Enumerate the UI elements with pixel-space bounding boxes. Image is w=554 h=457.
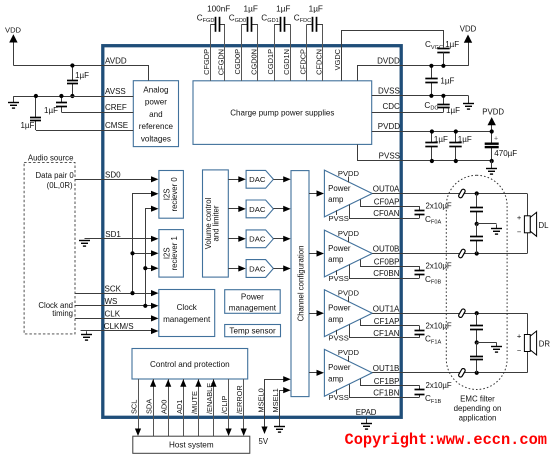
pin CFGDN wire — [224, 24, 226, 81]
pin CF0AP wire + label — [361, 200, 420, 207]
pin /CLIP wire — [228, 379, 230, 430]
svg-text:1µF: 1µF — [244, 4, 258, 13]
svg-text:/ERROR: /ERROR — [235, 385, 244, 414]
ground (MSEL1) — [279, 423, 281, 427]
svg-text:reciever 1: reciever 1 — [170, 236, 179, 270]
svg-text:DAC: DAC — [249, 264, 266, 273]
svg-text:CFGDN: CFGDN — [217, 49, 226, 75]
wire volume control to DAC 4 — [228, 268, 239, 270]
EMC shunt capacitor 2 (DL bottom) — [476, 224, 478, 237]
svg-text:Audio source: Audio source — [28, 154, 74, 163]
pin /ERROR wire — [243, 379, 245, 430]
svg-text:CF0BN: CF0BN — [373, 269, 399, 278]
pin CDC wire + label — [372, 112, 444, 114]
power amp 1 PVDD pin — [348, 177, 350, 183]
svg-text:DL: DL — [539, 221, 550, 230]
svg-text:Analog: Analog — [143, 85, 168, 94]
wire DAC 2 to channel configuration — [273, 208, 284, 210]
pin SD0 wire + label — [75, 179, 152, 181]
power amp 4 PVSS pin — [336, 390, 338, 395]
pin CF1AN wire + label — [350, 325, 420, 338]
svg-text:EMC filter: EMC filter — [460, 394, 495, 403]
node DR filter midpoint — [475, 340, 479, 344]
svg-text:VDD: VDD — [5, 25, 22, 34]
svg-text:power: power — [145, 98, 167, 107]
ferrite bead on OUT1B — [458, 368, 466, 378]
capacitor 1uF AVDD-AVSS — [72, 66, 74, 81]
svg-text:1µF: 1µF — [440, 77, 454, 86]
svg-text:1µF: 1µF — [434, 135, 448, 144]
ground (DVSS) — [468, 95, 470, 103]
svg-text:DAC: DAC — [249, 175, 266, 184]
power amp 2 PVSS pin — [336, 270, 338, 275]
wire channel configuration to power amp 4 — [309, 372, 318, 374]
power amp 3 PVSS pin — [336, 330, 338, 335]
wire volume control to DAC 3 — [228, 238, 239, 240]
power amp 1 PVSS pin — [336, 210, 338, 215]
speaker DR — [527, 313, 529, 334]
wire OUT1A output — [372, 313, 527, 315]
pin VGDC wire to external CVGC — [342, 31, 444, 81]
svg-text:CDC: CDC — [382, 102, 400, 111]
node DL filter midpoint — [475, 222, 479, 226]
pin SD1 wire + label — [85, 238, 153, 240]
svg-text:VDD: VDD — [460, 25, 477, 34]
capacitor 1uF DVDD-DVSS — [431, 66, 433, 79]
svg-text:/ENABLE: /ENABLE — [205, 383, 214, 414]
svg-text:2x10µF: 2x10µF — [426, 381, 452, 390]
EMC shunt capacitor 3 (DR top) — [476, 313, 478, 326]
EMC filter ground (DR) — [477, 342, 497, 344]
svg-text:Temp sensor: Temp sensor — [229, 327, 276, 336]
svg-text:−: − — [517, 227, 522, 236]
pin CLKM/S wire + label — [81, 330, 153, 332]
block: Analog power and reference voltages — [133, 81, 178, 147]
svg-text:AVSS: AVSS — [105, 87, 126, 96]
pin CF1BN wire + label — [350, 385, 420, 398]
svg-text:PVDD: PVDD — [378, 122, 400, 131]
pin CF0BN wire + label — [350, 265, 420, 279]
node OUT0A filter junction — [475, 191, 479, 195]
svg-text:AD1: AD1 — [175, 400, 184, 414]
pin CF1AP wire + label — [361, 320, 420, 326]
svg-text:and: and — [149, 110, 163, 119]
svg-text:5V: 5V — [259, 437, 269, 446]
svg-text:amp: amp — [328, 255, 344, 264]
svg-text:Copyright:www.eccn.com: Copyright:www.eccn.com — [345, 431, 548, 449]
capacitor CF1B 2x10uF — [419, 385, 421, 389]
svg-text:SD1: SD1 — [105, 230, 121, 239]
svg-text:CF1AP: CF1AP — [374, 317, 400, 326]
svg-text:Power: Power — [328, 244, 351, 253]
capacitor CF0B 2x10uF — [419, 266, 421, 270]
svg-text:CF0BP: CF0BP — [374, 258, 400, 267]
power amp 3 PVDD pin — [348, 296, 350, 302]
svg-text:/MUTE: /MUTE — [190, 391, 199, 414]
pin SCK wire + label — [75, 293, 152, 295]
svg-text:PVDD: PVDD — [338, 229, 360, 238]
svg-text:CMSE: CMSE — [105, 121, 128, 130]
svg-text:Power: Power — [241, 292, 264, 301]
svg-text:(0L,0R): (0L,0R) — [47, 181, 73, 190]
capacitor CGD1 1µF — [274, 24, 280, 26]
svg-text:management: management — [229, 303, 277, 312]
op-amp power amp 4 — [324, 349, 372, 396]
svg-text:voltages: voltages — [141, 135, 171, 144]
ferrite bead on OUT0A — [458, 189, 466, 199]
block: Power management — [225, 290, 281, 314]
EMC shunt capacitor 4 (DR bottom) — [476, 343, 478, 357]
capacitor CF0A 2x10uF — [419, 206, 421, 210]
svg-text:CGD1P: CGD1P — [266, 49, 275, 75]
capacitor 1uF PVDD-PVSS (2) — [455, 132, 457, 143]
svg-text:depending on: depending on — [454, 404, 502, 413]
pin CF0AN wire + label — [350, 205, 420, 219]
svg-text:Clock: Clock — [177, 303, 198, 312]
svg-text:SD0: SD0 — [105, 170, 121, 179]
speaker DL — [527, 194, 529, 216]
wire DAC 4 to channel configuration — [273, 268, 284, 270]
svg-text:PVDD: PVDD — [338, 289, 360, 298]
svg-text:OUT1B: OUT1B — [373, 364, 400, 373]
svg-text:+: + — [517, 213, 522, 222]
pin CGD0P wire — [241, 24, 243, 81]
DAC 1 — [246, 170, 273, 188]
EMC shunt capacitor 1 (DL top) — [476, 194, 478, 208]
svg-text:PVSS: PVSS — [329, 274, 349, 283]
svg-text:CREF: CREF — [105, 103, 127, 112]
EMC filter ground (DL) — [477, 223, 497, 225]
wire DAC 3 to channel configuration — [273, 238, 284, 240]
pin CGD1P wire — [274, 24, 276, 81]
svg-text:1µF: 1µF — [458, 135, 472, 144]
IC block outline (main amplifier chip) — [103, 46, 401, 418]
svg-text:1µF: 1µF — [44, 106, 58, 115]
pin PVSS wire + label — [358, 145, 492, 161]
svg-text:CLK: CLK — [105, 310, 121, 319]
pin CGD1N wire — [290, 24, 292, 81]
dashed box: Audio source — [24, 162, 75, 334]
block: Charge pump power supplies — [193, 81, 372, 145]
ferrite bead on OUT1A — [458, 308, 466, 318]
pin CFGDP wire — [210, 24, 212, 81]
node OUT0B filter junction — [475, 251, 479, 255]
svg-text:WS: WS — [105, 297, 118, 306]
capacitor 1uF on CREF — [61, 96, 63, 103]
svg-text:PVSS: PVSS — [379, 151, 400, 160]
svg-text:1µF: 1µF — [276, 4, 290, 13]
block: I2S reciever 0 — [159, 171, 184, 219]
svg-text:Power: Power — [328, 184, 351, 193]
svg-text:1µF: 1µF — [20, 121, 34, 130]
svg-text:Data pair 0: Data pair 0 — [36, 171, 75, 180]
dashed EMC filter boundary — [446, 175, 507, 389]
op-amp power amp 2 — [324, 230, 372, 277]
block: Control and protection — [132, 349, 248, 380]
svg-text:Power: Power — [328, 304, 351, 313]
capacitor CDC 1uF — [443, 96, 445, 105]
svg-text:Host system: Host system — [169, 441, 214, 450]
ground (AVSS left) — [13, 96, 15, 102]
svg-text:DVSS: DVSS — [378, 87, 400, 96]
DAC 3 — [246, 230, 273, 248]
svg-text:+: + — [517, 332, 522, 341]
block: Host system — [133, 436, 250, 453]
svg-text:CFDCN: CFDCN — [314, 49, 323, 75]
capacitor CFGD 100nF — [211, 24, 216, 26]
pin WS wire + label — [75, 305, 152, 307]
capacitor 1uF PVDD-PVSS (1) — [431, 132, 433, 143]
svg-text:Channel configuration: Channel configuration — [296, 246, 305, 322]
svg-text:1µF: 1µF — [75, 71, 89, 80]
svg-text:2x10µF: 2x10µF — [426, 321, 452, 330]
svg-text:PVSS: PVSS — [329, 214, 349, 223]
pin MSEL1 wire — [280, 391, 285, 423]
ferrite bead on OUT0B — [458, 249, 466, 259]
wire channel configuration to power amp 1 — [309, 193, 318, 195]
pin AD0 wire — [168, 379, 170, 436]
VDD power arrow (top right) — [468, 41, 470, 66]
svg-text:CFDCP: CFDCP — [298, 49, 307, 75]
ground (PVSS) — [491, 161, 493, 169]
svg-text:CF1BN: CF1BN — [373, 389, 399, 398]
svg-text:AVDD: AVDD — [105, 57, 127, 66]
svg-text:2x10µF: 2x10µF — [426, 202, 452, 211]
svg-text:CLKM/S: CLKM/S — [104, 322, 134, 331]
ground (SD1 tie-off) — [79, 240, 90, 242]
svg-text:PVDD: PVDD — [338, 348, 360, 357]
svg-text:1µF: 1µF — [309, 4, 323, 13]
svg-text:EPAD: EPAD — [356, 408, 377, 417]
svg-text:timing: timing — [52, 309, 73, 318]
svg-text:Power: Power — [328, 363, 351, 372]
pin AVSS wire + label — [14, 96, 134, 98]
pin DVSS wire + label — [372, 95, 468, 97]
svg-text:amp: amp — [328, 195, 344, 204]
pin MSEL0 wire — [265, 380, 285, 428]
block: I2S reciever 1 — [159, 230, 184, 278]
svg-text:CFGDP: CFGDP — [202, 49, 211, 75]
node OUT1A filter junction — [475, 311, 479, 315]
PVDD power arrow — [491, 124, 493, 132]
svg-text:OUT0B: OUT0B — [373, 245, 400, 254]
svg-text:management: management — [163, 315, 211, 324]
pin CLK wire + label — [75, 318, 152, 320]
svg-text:DAC: DAC — [249, 235, 266, 244]
svg-text:application: application — [459, 413, 497, 422]
block: Volume control and limiter — [203, 170, 229, 277]
svg-text:1µF: 1µF — [446, 106, 460, 115]
svg-text:PVDD: PVDD — [338, 169, 360, 178]
svg-text:Charge pump power supplies: Charge pump power supplies — [230, 109, 334, 118]
wire OUT1B output — [372, 372, 527, 374]
svg-text:DVDD: DVDD — [377, 57, 400, 66]
op-amp power amp 1 — [324, 170, 372, 217]
pin SDA wire — [153, 379, 155, 436]
wire channel configuration to power amp 3 — [309, 313, 318, 315]
svg-text:+: + — [494, 136, 498, 143]
svg-text:SCL: SCL — [130, 400, 139, 414]
pin AD1 wire — [183, 379, 185, 436]
wire OUT0A output — [372, 193, 527, 195]
capacitor CF1A 2x10uF — [419, 326, 421, 330]
svg-text:CGD1N: CGD1N — [282, 49, 291, 75]
DAC 2 — [246, 200, 273, 218]
wire OUT0B output — [372, 253, 527, 255]
pin SCL wire — [138, 379, 140, 430]
pin CF0BP wire + label — [361, 260, 420, 267]
pin AVDD wire + label — [14, 66, 149, 81]
svg-text:CF1BP: CF1BP — [374, 377, 400, 386]
svg-text:CF1AN: CF1AN — [373, 329, 399, 338]
pin CGD0N wire — [257, 24, 259, 81]
capacitor CFDC 1µF — [307, 24, 313, 26]
power amp 2 PVDD pin — [348, 237, 350, 243]
capacitor 1uF on CMSE — [35, 96, 37, 117]
pin CFDCP wire — [306, 24, 308, 81]
svg-text:OUT0A: OUT0A — [373, 185, 400, 194]
svg-text:DR: DR — [539, 340, 551, 349]
svg-text:VGDC: VGDC — [333, 48, 342, 70]
ground (CLKM/S tie-off) — [86, 331, 88, 334]
svg-text:DAC: DAC — [249, 205, 266, 214]
op-amp power amp 3 — [324, 290, 372, 337]
svg-text:SCK: SCK — [105, 284, 122, 293]
pin DVDD wire + label — [358, 66, 469, 81]
svg-text:reciever 0: reciever 0 — [170, 177, 179, 212]
svg-text:MSEL0: MSEL0 — [256, 388, 265, 412]
svg-text:CF0AN: CF0AN — [373, 209, 399, 218]
wire channel configuration to power amp 2 — [309, 253, 318, 255]
svg-text:reference: reference — [139, 122, 174, 131]
pin CF1BP wire + label — [361, 379, 420, 386]
svg-text:CGD0N: CGD0N — [249, 49, 258, 75]
svg-text:CGD0P: CGD0P — [233, 49, 242, 75]
pin CMSE wire + label — [36, 130, 133, 132]
pin PVDD wire + label — [372, 131, 492, 133]
svg-text:100nF: 100nF — [207, 4, 230, 13]
svg-text:amp: amp — [328, 315, 344, 324]
WS branch to I2S receivers — [146, 209, 153, 306]
VDD power arrow (top left) — [13, 41, 15, 66]
svg-text:/CLIP: /CLIP — [220, 395, 229, 414]
node OUT1B filter junction — [475, 371, 479, 375]
svg-text:−: − — [517, 346, 522, 355]
svg-text:MSEL1: MSEL1 — [271, 388, 280, 412]
block: Clock management — [159, 290, 215, 337]
svg-text:PVSS: PVSS — [329, 393, 349, 402]
svg-text:PVSS: PVSS — [329, 334, 349, 343]
pin /MUTE wire — [198, 379, 200, 436]
pin CREF wire + label — [61, 112, 133, 114]
svg-text:and limiter: and limiter — [211, 205, 220, 241]
svg-text:2x10µF: 2x10µF — [426, 262, 452, 271]
pin /ENABLE wire — [213, 379, 215, 436]
wire DAC 1 to channel configuration — [273, 179, 284, 181]
block: Temp sensor — [225, 325, 281, 337]
block: Channel configuration — [291, 171, 309, 397]
capacitor CVGC 1uF (VGDC rail) — [437, 48, 449, 50]
DAC 4 — [246, 260, 273, 278]
wire volume control to DAC 2 — [228, 208, 239, 210]
power amp 4 PVDD pin — [348, 356, 350, 362]
SCK branch to I2S receivers — [133, 194, 153, 294]
svg-text:AD0: AD0 — [160, 400, 169, 414]
svg-text:amp: amp — [328, 374, 344, 383]
svg-text:OUT1A: OUT1A — [373, 304, 400, 313]
wire volume control to DAC 1 — [228, 179, 239, 181]
svg-text:CF0AP: CF0AP — [374, 198, 400, 207]
pin CFDCN wire — [322, 24, 324, 81]
svg-text:1µF: 1µF — [445, 40, 459, 49]
svg-text:Control and protection: Control and protection — [150, 360, 230, 369]
capacitor CGD0 1µF — [242, 24, 248, 26]
capacitor 470uF electrolytic — [491, 132, 493, 143]
svg-text:SDA: SDA — [145, 399, 154, 414]
svg-text:PVDD: PVDD — [482, 107, 504, 116]
svg-text:470µF: 470µF — [494, 149, 517, 158]
